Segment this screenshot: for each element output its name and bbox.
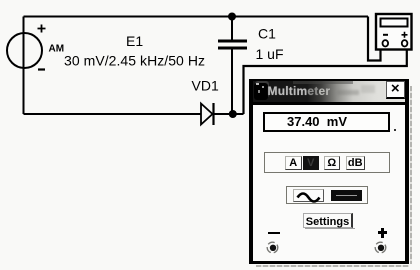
wire top horizontal [24, 16, 369, 18]
multimeter instrument icon XMM1 [376, 14, 412, 50]
wire diode to cap junction [214, 113, 244, 115]
readout display box [263, 112, 390, 132]
wire bottom horizontal [24, 113, 202, 115]
wire multimeter minus lead [368, 17, 381, 61]
title text Multimeter [268, 84, 331, 98]
terminal plus label horizontal [378, 231, 388, 234]
terminal minus socket [265, 240, 281, 256]
wire left vertical [23, 17, 25, 115]
terminal minus label [268, 232, 280, 235]
button Ohm [324, 156, 341, 171]
multimeter window shadow [256, 265, 409, 268]
terminal plus label vertical [381, 228, 384, 238]
button DC selected [331, 190, 363, 201]
AC source E1 circle [7, 33, 42, 68]
capacitor C1 plates [218, 40, 247, 43]
junction node bottom [229, 110, 237, 118]
source minus mark [38, 68, 45, 70]
title bar icon [254, 83, 268, 100]
wire multimeter plus lead [244, 50, 407, 114]
svg-text:VD1: VD1 [192, 78, 219, 94]
Settings bottom shade [305, 228, 355, 230]
mode buttons group frame [264, 152, 390, 173]
svg-text:E1: E1 [126, 33, 143, 49]
button dB [346, 156, 366, 171]
svg-text:30 mV/2.45 kHz/50 Hz: 30 mV/2.45 kHz/50 Hz [64, 53, 205, 69]
svg-text:AM: AM [49, 44, 65, 55]
terminal plus socket [373, 240, 389, 256]
button A [285, 156, 302, 171]
title bar noise marks [337, 90, 359, 95]
svg-text:1 uF: 1 uF [256, 46, 284, 62]
window title bar [253, 81, 405, 102]
capacitor C1 bottom lead [231, 50, 233, 115]
button AC sine [293, 189, 324, 202]
junction node top [228, 13, 236, 21]
readout text [287, 116, 347, 129]
svg-text:C1: C1 [258, 26, 276, 42]
diode VD1 [201, 103, 214, 125]
speck period [394, 129, 396, 131]
Settings button [303, 213, 353, 228]
multimeter dialog window [249, 79, 409, 264]
wave buttons group frame [286, 186, 368, 205]
capacitor C1 top lead [231, 17, 233, 41]
source plus mark [38, 25, 46, 33]
close button [386, 81, 405, 99]
button V selected [303, 156, 319, 171]
title bar bottom line [253, 102, 405, 105]
